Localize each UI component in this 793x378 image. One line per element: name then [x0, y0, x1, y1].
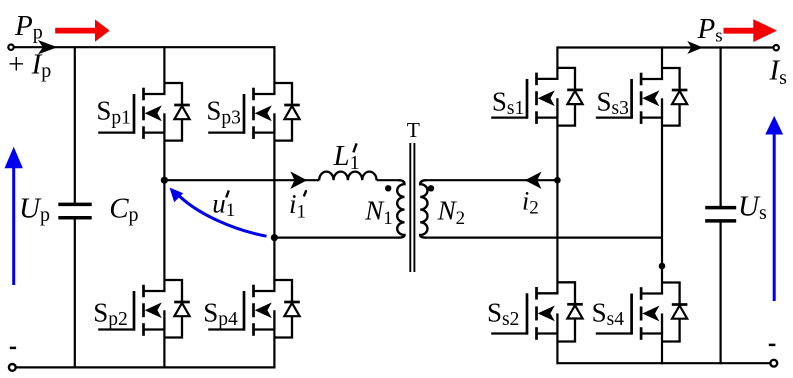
- wire: primary bottom rail: [16, 366, 275, 368]
- wire: primary top rail: [14, 46, 275, 48]
- transistor Sp2 (MOSFET with body diode): [98, 280, 190, 338]
- prime mark of i1': [304, 190, 307, 196]
- wire: left bridge leg B drain lead: [273, 46, 275, 94]
- voltage arrow u1' (blue curve): [175, 192, 266, 236]
- voltage arrow U_s (blue): [765, 116, 783, 135]
- wire: C_s top lead: [719, 46, 721, 206]
- current arrowhead I_p on primary top rail: [38, 40, 58, 54]
- wire: transformer secondary top to right bridge midpoint: [425, 179, 557, 181]
- terminal: secondary negative: [770, 360, 777, 367]
- transistor Sp4 (MOSFET with body diode): [208, 280, 300, 338]
- node: secondary bridge midpoint C: [554, 177, 561, 184]
- wire: secondary bottom rail: [557, 362, 770, 364]
- current arrowhead on secondary top rail: [687, 41, 703, 54]
- wire: transformer secondary bottom to right bridge leg D: [425, 237, 662, 239]
- wire: right bridge leg D drain lead: [661, 46, 663, 79]
- wire: C_s bottom lead: [719, 222, 721, 364]
- wire: inductor to transformer primary top: [377, 179, 400, 181]
- winding N2 (secondary): [420, 180, 427, 237]
- wire: left bridge leg B source lead: [273, 330, 275, 369]
- polarity dot N2: [428, 185, 434, 191]
- voltage arrow U_p (blue): [5, 147, 23, 169]
- power flow arrow (red) at P_s: [724, 19, 778, 42]
- capacitor C_s: [705, 206, 736, 210]
- terminal: primary negative: [9, 364, 16, 371]
- wire: bridge A midpoint to inductor: [164, 179, 319, 181]
- wire: left bridge leg B middle: [273, 133, 275, 291]
- transistor Sp1 (MOSFET with body diode): [98, 83, 190, 141]
- wire: left bridge leg A middle: [163, 133, 165, 291]
- wire: right bridge leg D source lead: [661, 334, 663, 365]
- current arrowhead i1' on link wire: [290, 171, 307, 189]
- transistor Ss2 (MOSFET with body diode): [491, 282, 583, 341]
- prime mark of u1': [226, 190, 229, 197]
- terminal: primary positive port P_p: [8, 45, 13, 50]
- power flow arrow (red) at P_p: [55, 19, 109, 41]
- transistor Sp3 (MOSFET with body diode): [208, 83, 300, 141]
- node: primary bridge midpoint A: [161, 177, 168, 184]
- label - (secondary negative): [769, 344, 776, 347]
- node: primary bridge midpoint B: [271, 234, 278, 241]
- label - (primary negative): [10, 347, 16, 350]
- transformer core: [409, 143, 411, 272]
- node: secondary bridge leg D junction: [659, 263, 666, 270]
- wire: C_p bottom lead: [74, 219, 76, 368]
- winding N1 (primary): [397, 180, 404, 237]
- wire: C_p top lead: [74, 46, 76, 203]
- capacitor C_p: [58, 203, 91, 207]
- wire: secondary top rail: [557, 46, 773, 48]
- transistor Ss1 (MOSFET with body diode): [491, 68, 583, 126]
- wire: right bridge leg C middle: [556, 118, 558, 294]
- wire: left bridge leg A source lead: [163, 330, 165, 369]
- inductor L1': [319, 172, 376, 181]
- wire: right bridge leg D middle: [661, 118, 663, 294]
- wire: left bridge leg A drain lead: [163, 46, 165, 94]
- transistor Ss4 (MOSFET with body diode): [596, 283, 688, 342]
- transistor Ss3 (MOSFET with body diode): [596, 68, 688, 126]
- wire: right bridge leg C source lead: [556, 334, 558, 365]
- current arrowhead i2 on secondary wire: [525, 172, 542, 189]
- wire: right bridge leg C drain lead: [556, 46, 558, 79]
- terminal: secondary positive port P_s: [774, 45, 779, 50]
- polarity dot N1: [385, 185, 391, 191]
- prime mark of L1': [353, 143, 356, 152]
- wire: transformer primary bottom to bridge B midpoint: [274, 237, 399, 239]
- svg-text:T: T: [407, 118, 420, 142]
